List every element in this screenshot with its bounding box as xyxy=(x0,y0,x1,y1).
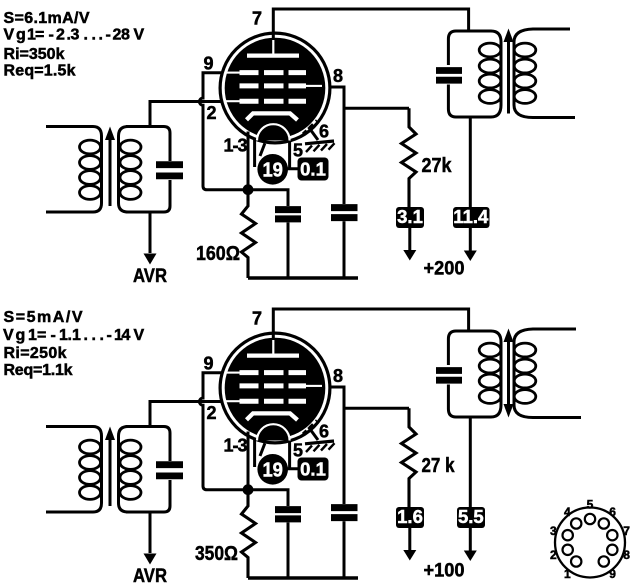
wire arrow below 11.4 box (1) xyxy=(469,228,472,254)
svg-text:7: 7 xyxy=(252,9,262,29)
svg-text:7: 7 xyxy=(623,524,630,538)
tuning arrow of T21 xyxy=(507,40,510,114)
svg-text:1.6: 1.6 xyxy=(397,506,423,527)
tube parameters text block 2 xyxy=(3,309,145,379)
resistor 27k screen feed (2) xyxy=(402,408,417,507)
svg-text:11.4: 11.4 xyxy=(453,206,489,227)
svg-text:Ri=250k: Ri=250k xyxy=(4,345,67,362)
wire common bottom rail (1) xyxy=(248,276,358,279)
wire pin6 to ground bar (2) xyxy=(309,427,319,440)
svg-text:0.1: 0.1 xyxy=(300,159,326,180)
wire pin6 dashed internal lead (2) xyxy=(303,421,317,435)
wire anode pin7 to output IF transformer 2 xyxy=(273,309,468,339)
tube V2 (pentode envelope with electrodes) xyxy=(220,333,330,443)
wire pin6 dashed internal lead (1) xyxy=(303,121,317,135)
svg-text:Req=1.1k: Req=1.1k xyxy=(4,362,73,379)
capacitor cathode bypass (2) xyxy=(275,510,301,519)
svg-text:19: 19 xyxy=(262,159,283,182)
wire screen pin8 to bypass cap and 27k (2) xyxy=(329,387,409,504)
capacitor cathode bypass (1) xyxy=(275,210,301,219)
wire arrow below 1.6 box (2) xyxy=(408,528,411,553)
wire grid pin2 from input transformer (2) xyxy=(150,402,222,427)
current value box 1.6 mA (2) xyxy=(396,506,424,528)
wire pin6 to ground bar (1) xyxy=(309,127,319,140)
wire AVC return with arrow (1) xyxy=(149,212,152,253)
svg-text:4: 4 xyxy=(564,505,571,519)
tube socket base diagram (noval, bottom view) xyxy=(555,508,625,578)
input IF transformer T12 (tuned secondary) xyxy=(46,427,183,513)
svg-text:Ri=350k: Ri=350k xyxy=(4,46,65,63)
svg-text:9: 9 xyxy=(204,54,214,74)
heater current value 19 in circle (2) xyxy=(257,454,288,485)
svg-text:5.5: 5.5 xyxy=(458,506,484,527)
output IF transformer T21 primary xyxy=(436,31,501,117)
resistor 160Ω cathode bias (1) xyxy=(242,194,256,278)
capacitor screen bypass (2) xyxy=(331,508,358,518)
svg-text:2: 2 xyxy=(207,403,217,423)
wire screen pin8 to bypass cap and 27k (1) xyxy=(329,87,409,204)
wire heater leads from tube base (2) xyxy=(255,440,298,469)
wire arrow below 5.5 box (2) xyxy=(469,528,472,554)
wire heater leads from tube base (1) xyxy=(255,140,298,169)
svg-text:8: 8 xyxy=(333,366,343,386)
svg-text:S=5mA/V: S=5mA/V xyxy=(4,309,83,326)
svg-text:8: 8 xyxy=(333,66,343,86)
svg-text:6: 6 xyxy=(319,122,329,142)
node cathode junction dot (1) xyxy=(243,184,254,195)
svg-text:+200: +200 xyxy=(424,258,465,280)
svg-text:27 k: 27 k xyxy=(422,455,456,477)
ground (chassis) at pin 5 (1) xyxy=(305,141,335,152)
svg-text:6: 6 xyxy=(609,505,616,519)
current value box 11.4 mA (1) xyxy=(453,206,490,228)
socket pin number labels xyxy=(550,497,630,581)
heater current value 19 in circle (1) xyxy=(257,154,288,185)
svg-text:S=6.1mA/V: S=6.1mA/V xyxy=(4,10,90,27)
current value box 3.1 mA (1) xyxy=(396,206,424,228)
svg-text:7: 7 xyxy=(252,309,262,329)
resistor 27k screen feed (1) xyxy=(402,108,417,207)
svg-text:AVR: AVR xyxy=(133,565,167,587)
svg-text:Vg1=-1.1...-14V: Vg1=-1.1...-14V xyxy=(3,327,145,344)
svg-text:2: 2 xyxy=(207,103,217,123)
tube parameters text block 1 xyxy=(4,10,145,80)
output IF transformer T22 secondary xyxy=(514,329,581,418)
svg-text:2: 2 xyxy=(550,548,557,562)
svg-text:6: 6 xyxy=(319,422,329,442)
wire pin9 to cathode junction with hop (1) xyxy=(199,73,244,190)
svg-text:1-3: 1-3 xyxy=(224,436,248,456)
svg-text:5: 5 xyxy=(587,497,594,511)
svg-text:9: 9 xyxy=(609,567,616,581)
wire grid pin2 from input transformer (1) xyxy=(150,102,222,127)
tube V1 (pentode envelope with electrodes) xyxy=(220,33,330,143)
output IF transformer T22 primary xyxy=(436,331,501,417)
svg-text:8: 8 xyxy=(623,548,630,562)
svg-text:160Ω: 160Ω xyxy=(196,243,240,265)
wire junction to cathode bypass cap (2) xyxy=(248,490,288,506)
svg-text:Vg1=-2.3...-28V: Vg1=-2.3...-28V xyxy=(4,27,145,44)
wire common bottom rail (2) xyxy=(248,576,358,579)
svg-text:27k: 27k xyxy=(422,155,453,177)
wire transformer primary to supply (2) xyxy=(469,417,472,507)
current value box 5.5 mA (2) xyxy=(457,506,485,528)
output IF transformer T21 secondary xyxy=(514,29,575,118)
svg-text:+100: +100 xyxy=(424,560,465,582)
wire pin9 to cathode junction with hop (2) xyxy=(199,373,244,490)
svg-text:3: 3 xyxy=(550,524,557,538)
svg-text:9: 9 xyxy=(204,354,214,374)
heater value 0.1 in box (2) xyxy=(298,458,329,481)
svg-text:3.1: 3.1 xyxy=(397,206,423,227)
wire arrow below 3.1 box (1) xyxy=(408,228,411,253)
svg-text:350Ω: 350Ω xyxy=(195,543,238,565)
node cathode junction dot (2) xyxy=(243,484,254,495)
resistor 350Ω cathode bias (2) xyxy=(242,494,256,578)
ground (chassis) at pin 5 (2) xyxy=(305,441,335,452)
input IF transformer T11 (tuned secondary) xyxy=(46,127,183,213)
wire junction to cathode bypass cap (1) xyxy=(248,190,288,206)
svg-text:1-3: 1-3 xyxy=(224,136,248,156)
svg-text:19: 19 xyxy=(262,459,283,482)
tuning arrow of T22 xyxy=(507,340,510,406)
capacitor screen bypass (1) xyxy=(331,208,358,218)
svg-text:1: 1 xyxy=(564,567,571,581)
wire transformer primary to supply (1) xyxy=(469,117,472,207)
wire AVC return with arrow (2) xyxy=(149,512,152,553)
wire cathode pins1-3 down to junction (1) xyxy=(247,132,250,186)
svg-text:AVR: AVR xyxy=(133,265,167,287)
heater value 0.1 in box (1) xyxy=(298,158,329,181)
svg-text:0.1: 0.1 xyxy=(300,459,326,480)
svg-text:Req=1.5k: Req=1.5k xyxy=(4,63,76,80)
wire anode pin7 to output IF transformer 1 xyxy=(273,9,468,39)
wire cathode pins1-3 down to junction (2) xyxy=(247,432,250,486)
